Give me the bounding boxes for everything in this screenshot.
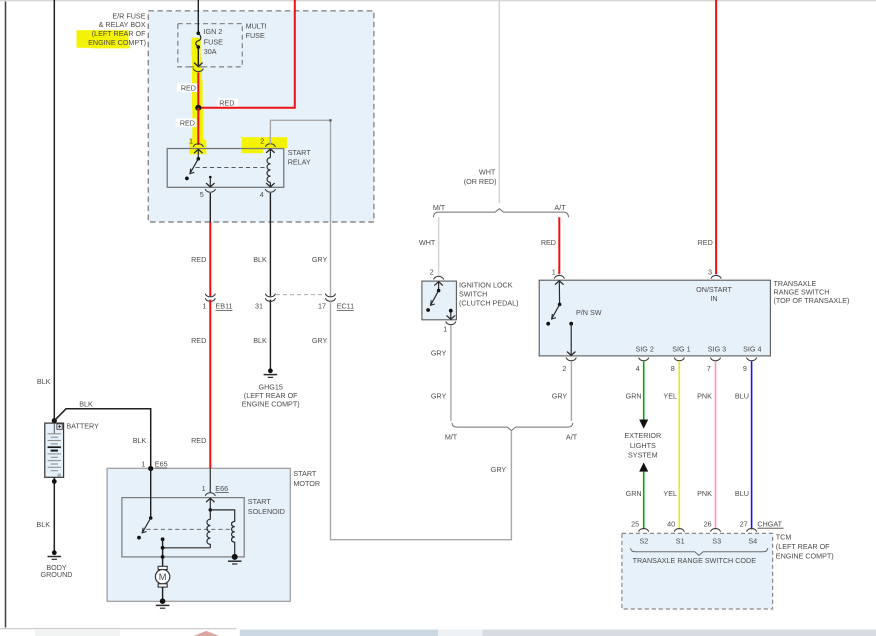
svg-text:26: 26 <box>704 520 712 529</box>
transaxle pin 3 connector <box>711 275 721 278</box>
motor ground on start motor box edge <box>160 598 166 604</box>
page top hairline border <box>0 0 876 2</box>
svg-text:8: 8 <box>671 364 675 373</box>
wire: BLK to ground GHG15 <box>269 300 271 369</box>
transaxle range switch box <box>539 280 770 356</box>
svg-text:IGNITION LOCK: IGNITION LOCK <box>459 280 513 289</box>
svg-text:5: 5 <box>200 190 204 199</box>
svg-text:BLU: BLU <box>735 392 749 401</box>
svg-text:SOLENOID: SOLENOID <box>248 507 285 516</box>
svg-text:& RELAY BOX: & RELAY BOX <box>99 20 146 29</box>
merge brace M/T / A/T <box>452 423 573 431</box>
relay mechanical link (dashed) <box>196 167 265 169</box>
svg-text:WHT: WHT <box>479 167 496 176</box>
white label plates for RED labels inside box <box>177 83 198 92</box>
svg-text:2: 2 <box>430 267 434 276</box>
svg-text:FUSE: FUSE <box>204 37 223 46</box>
svg-text:BLK: BLK <box>133 436 147 445</box>
yellow highlight along fuse wire down to relay pin 1 <box>189 38 206 154</box>
start solenoid box <box>122 498 244 557</box>
svg-text:P/N SW: P/N SW <box>576 308 602 317</box>
junction on solenoid box edge <box>161 555 165 559</box>
svg-text:EXTERIOR: EXTERIOR <box>624 431 661 440</box>
svg-text:17: 17 <box>318 302 326 311</box>
svg-text:CHGAT: CHGAT <box>757 520 782 529</box>
svg-text:BATTERY: BATTERY <box>66 422 99 431</box>
svg-text:E65: E65 <box>155 459 168 468</box>
relay switch contact <box>185 177 189 181</box>
yellow highlight over (LEFT REAR OF / ENGINE COMPT) text <box>77 30 129 48</box>
svg-text:1: 1 <box>443 325 447 334</box>
svg-text:(TOP OF TRANSAXLE): (TOP OF TRANSAXLE) <box>774 296 850 305</box>
svg-text:E/R FUSE: E/R FUSE <box>112 11 145 20</box>
svg-text:3: 3 <box>708 267 712 276</box>
svg-text:GROUND: GROUND <box>41 570 73 579</box>
svg-text:GRY: GRY <box>491 465 507 474</box>
wire: RED to connector EB11 <box>209 222 211 296</box>
svg-text:IGN 2: IGN 2 <box>204 27 223 36</box>
redraw borders over highlight <box>188 148 207 150</box>
svg-text:SYSTEM: SYSTEM <box>628 451 658 460</box>
svg-text:E66: E66 <box>215 484 228 493</box>
svg-text:BLU: BLU <box>735 489 749 498</box>
svg-text:START: START <box>288 148 312 157</box>
svg-text:4: 4 <box>636 364 640 373</box>
svg-text:SIG 1: SIG 1 <box>672 344 690 353</box>
solenoid winding ground (on box edge) <box>232 554 238 560</box>
wire: RED A/T leg to transaxle range switch pin 1 <box>558 217 560 274</box>
svg-text:PNK: PNK <box>697 489 712 498</box>
svg-text:RED: RED <box>698 238 713 247</box>
E/R fuse & relay box (dashed) <box>148 11 374 222</box>
svg-text:S2: S2 <box>640 537 649 546</box>
svg-text:GRY: GRY <box>431 349 447 358</box>
TCM pin 40 connector <box>674 529 684 532</box>
TCM code brace <box>631 548 768 555</box>
svg-text:START: START <box>248 497 272 506</box>
svg-text:PNK: PNK <box>697 392 712 401</box>
svg-text:RED: RED <box>181 83 196 92</box>
svg-text:RELAY: RELAY <box>288 157 311 166</box>
svg-text:BLK: BLK <box>36 520 50 529</box>
wire: relay pin 4 to connector 31 <box>269 193 271 296</box>
svg-text:BLK: BLK <box>253 255 267 264</box>
relay pin 5 connector (arrow + cup) <box>206 183 214 187</box>
svg-text:GRY: GRY <box>552 391 568 400</box>
svg-text:WHT: WHT <box>419 238 436 247</box>
wire: coil bottom to motor contact stem <box>163 547 211 549</box>
svg-text:40: 40 <box>667 520 675 529</box>
connector E66 (cup + arrow into solenoid) <box>205 493 215 496</box>
wire: GRN to TCM pin 25 <box>643 472 645 530</box>
svg-text:RED: RED <box>191 436 206 445</box>
svg-text:EC11: EC11 <box>337 302 354 311</box>
wire: GRY relay pin 2 up/over/down to EC11 <box>270 120 330 296</box>
relay pin 4 connector <box>267 183 275 187</box>
svg-text:SIG 3: SIG 3 <box>708 344 726 353</box>
in-line connector EB11 pin 1 <box>205 294 215 297</box>
body ground symbol <box>52 550 57 555</box>
connector leaving multi fuse box (chevron + cup) <box>194 63 202 66</box>
svg-text:(LEFT REAR OF: (LEFT REAR OF <box>776 542 830 551</box>
split brace M/T / A/T <box>434 209 569 218</box>
ignition lock switch box <box>422 281 457 320</box>
wire: PNK SIG 3 to TCM pin 26 <box>715 361 717 529</box>
svg-text:4: 4 <box>260 190 264 199</box>
bottom strip: partial thumbnails below page <box>35 630 120 636</box>
relay pin 1 connector (cup + arrow) <box>193 144 203 147</box>
P/N contact to pin 2 <box>569 322 573 326</box>
solenoid hold-in winding (right coil) <box>210 510 234 557</box>
svg-text:GRY: GRY <box>312 255 328 264</box>
solenoid pull-in winding (left coil) <box>207 510 210 548</box>
connector link dashed EC11 <box>276 294 326 296</box>
svg-text:ENGINE COMPT): ENGINE COMPT) <box>242 399 300 408</box>
transaxle pin 1 connector <box>554 275 564 278</box>
svg-text:FUSE: FUSE <box>246 31 265 40</box>
TCM pin 25 connector <box>639 529 649 532</box>
ignition pin 1 contact and stem <box>449 309 453 313</box>
svg-text:2: 2 <box>260 137 264 146</box>
relay pin 2 connector <box>266 144 276 147</box>
junction node <box>195 105 201 111</box>
svg-text:1: 1 <box>552 267 556 276</box>
svg-text:M/T: M/T <box>433 203 446 212</box>
battery B1 <box>45 423 64 477</box>
wire: RED junction to relay pin 1 <box>197 108 199 145</box>
svg-text:GRN: GRN <box>626 489 642 498</box>
page left border line <box>5 2 7 628</box>
wire: IGN 2 fuse feed from top <box>197 0 199 33</box>
in-line connector pin 31 <box>266 294 276 297</box>
svg-text:GRY: GRY <box>312 336 328 345</box>
solenoid switch arm <box>149 516 153 520</box>
ground GHG15 symbol <box>268 368 273 373</box>
svg-text:TCM: TCM <box>776 533 792 542</box>
wire: battery negative to body ground <box>53 477 55 550</box>
svg-text:YEL: YEL <box>663 392 677 401</box>
wire: GRY transaxle pin 2 leg <box>570 361 572 421</box>
svg-text:S3: S3 <box>712 537 721 546</box>
svg-text:START: START <box>293 469 317 478</box>
svg-text:ENGINE COMPT): ENGINE COMPT) <box>88 38 146 47</box>
wire: BLK branch diagonal+horizontal to E65 leg <box>54 409 150 469</box>
svg-text:25: 25 <box>631 520 639 529</box>
svg-text:BLK: BLK <box>79 399 93 408</box>
wire: WHT M/T leg to ignition lock switch <box>438 217 440 275</box>
svg-text:(LEFT REAR OF: (LEFT REAR OF <box>92 29 146 38</box>
svg-text:27: 27 <box>740 520 748 529</box>
P/N switch arm <box>558 281 560 305</box>
svg-text:1: 1 <box>141 459 145 468</box>
svg-text:GRN: GRN <box>626 392 642 401</box>
svg-text:M: M <box>159 572 167 582</box>
wire: RED branch to top right <box>198 0 294 108</box>
svg-text:S4: S4 <box>748 537 757 546</box>
svg-text:SWITCH: SWITCH <box>459 289 487 298</box>
start motor box <box>107 468 290 601</box>
svg-text:IN: IN <box>710 294 717 303</box>
svg-text:BLK: BLK <box>37 377 51 386</box>
svg-text:SIG 4: SIG 4 <box>743 344 761 353</box>
ignition switch arm <box>438 281 440 290</box>
battery plus terminal marker <box>57 424 62 429</box>
relay pin 5 stem <box>209 176 212 179</box>
wire: BLK E65 into solenoid switch <box>150 469 152 519</box>
wire: RED from fuse to junction <box>197 73 199 108</box>
svg-text:RED: RED <box>219 98 234 107</box>
junction node at battery positive <box>52 418 57 423</box>
wire: battery BLK vertical from top <box>53 0 55 421</box>
solenoid mechanical link (dashed) <box>146 528 233 530</box>
battery minus marker <box>58 473 62 475</box>
solenoid coil feed stem <box>209 498 211 510</box>
svg-text:YEL: YEL <box>663 489 677 498</box>
arrow from exterior lights system <box>639 462 648 471</box>
relay switch arm <box>197 149 199 159</box>
svg-text:RED: RED <box>180 118 195 127</box>
svg-text:M/T: M/T <box>445 432 458 441</box>
motor M1 <box>158 566 167 569</box>
wire: GRY EC11 down and over to A/T-M/T merge <box>331 300 512 540</box>
wire: BLU SIG 4 to TCM pin 27 <box>751 361 753 529</box>
svg-text:MULTI: MULTI <box>246 21 267 30</box>
svg-text:9: 9 <box>743 364 747 373</box>
svg-text:1: 1 <box>203 302 207 311</box>
svg-text:(CLUTCH PEDAL): (CLUTCH PEDAL) <box>459 298 519 307</box>
svg-text:7: 7 <box>707 364 711 373</box>
svg-text:1: 1 <box>189 137 193 146</box>
svg-text:SIG 2: SIG 2 <box>636 344 654 353</box>
svg-text:S1: S1 <box>676 537 685 546</box>
wire: YEL SIG 1 to TCM pin 40 <box>678 361 680 529</box>
wire: GRY ignition pin1 to merge brace <box>450 325 452 421</box>
wire: relay pin 5 lead (black inside box) <box>209 193 211 222</box>
svg-text:TRANSAXLE RANGE SWITCH CODE: TRANSAXLE RANGE SWITCH CODE <box>633 556 757 565</box>
bottom page edge hairline <box>0 628 236 630</box>
svg-text:(OR RED): (OR RED) <box>464 177 497 186</box>
yellow highlight at relay pin 2 <box>242 137 288 148</box>
svg-text:RED: RED <box>191 336 206 345</box>
svg-text:2: 2 <box>562 364 566 373</box>
solenoid switch contact <box>137 536 141 540</box>
svg-text:GRY: GRY <box>431 391 447 400</box>
svg-text:ENGINE COMPT): ENGINE COMPT) <box>776 551 834 560</box>
wire: WHT (OR RED) feed from top <box>498 0 500 203</box>
wire: GRN SIG 2 to exterior lights arrow <box>643 361 645 420</box>
svg-text:A/T: A/T <box>554 203 566 212</box>
start relay box <box>167 149 284 188</box>
multi fuse box (dashed) <box>178 24 243 67</box>
fuse F1 IGN 2 30A element <box>197 31 201 35</box>
TCM pin 26 connector <box>711 529 721 532</box>
svg-text:31: 31 <box>255 302 263 311</box>
svg-text:30A: 30A <box>204 47 217 56</box>
relay coil <box>269 149 271 158</box>
svg-text:A/T: A/T <box>566 432 578 441</box>
TCM box (dashed) <box>622 533 773 609</box>
svg-text:MOTOR: MOTOR <box>293 479 320 488</box>
ignition lock pin 2 connector <box>434 276 444 279</box>
SIG pin connectors <box>639 358 649 361</box>
TCM pin 27 connector <box>747 529 757 532</box>
svg-text:EB11: EB11 <box>216 302 233 311</box>
in-line connector EC11 pin 17 <box>326 294 336 297</box>
svg-text:RED: RED <box>541 238 556 247</box>
wire: RED ON/START feed from top <box>715 0 717 274</box>
wire: RED EB11 to start motor box <box>209 300 211 469</box>
svg-text:BLK: BLK <box>253 336 267 345</box>
bottom strip: top of pink logo triangle <box>194 631 220 636</box>
wire: lead inside start motor box to E66 <box>209 468 211 492</box>
arrow to exterior lights system <box>639 420 648 429</box>
svg-text:RED: RED <box>191 255 206 264</box>
wire: motor to case ground <box>162 587 164 599</box>
svg-text:LIGHTS: LIGHTS <box>630 441 656 450</box>
corner nib <box>329 119 331 121</box>
svg-text:1: 1 <box>202 484 206 493</box>
connector E65 junction dot on box edge <box>148 466 153 471</box>
